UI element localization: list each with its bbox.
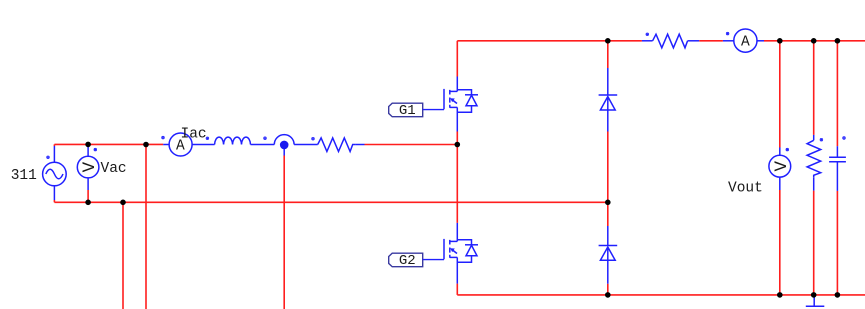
polarity mark V311 — [47, 156, 50, 159]
junction top rail diode-leg — [605, 38, 611, 44]
inductor L1 — [215, 137, 251, 144]
wire inductor to sensor (blue) — [251, 144, 275, 146]
svg-text:311: 311 — [11, 168, 37, 184]
polarity mark Iac — [162, 136, 165, 139]
diode D1 — [599, 68, 618, 132]
svg-text:Vout: Vout — [728, 181, 763, 197]
wire Vout column top red — [779, 41, 781, 148]
polarity mark Vac — [94, 148, 97, 151]
gate tag G1 — [389, 103, 444, 117]
junction drop x=146 — [143, 142, 149, 148]
wire R3 column bottom red — [813, 191, 815, 295]
voltmeter Vac — [77, 146, 99, 190]
polarity mark C1 — [843, 137, 846, 140]
svg-text:Vac: Vac — [101, 161, 127, 177]
wire diode-leg top red — [607, 41, 609, 68]
mosfet Q2 — [444, 223, 478, 284]
junction bottom rail ground — [811, 292, 817, 298]
polarity mark before L1 — [206, 137, 209, 140]
wire branch drop at x=146 (red, from input wire off bottom) — [145, 145, 147, 309]
svg-text:G2: G2 — [399, 253, 416, 269]
current sensor — [274, 135, 317, 156]
wire C1 column bottom red — [836, 191, 838, 295]
wire ac return rail (red, y=202) — [54, 201, 607, 203]
wire C1 column top red — [836, 41, 838, 146]
wire Q1 source to node red — [456, 132, 458, 145]
polarity mark before A2 — [726, 32, 729, 35]
wire sensor drop red (off bottom) — [283, 156, 285, 309]
wire diode-leg D2 cathode red — [607, 202, 609, 226]
gate tag G2 — [389, 253, 444, 267]
resistor R2 — [642, 34, 699, 48]
wire Q2 source to bottom rail red — [456, 284, 458, 295]
wire mosfet-leg midpoint to Q2 drain red (crosses ac return) — [456, 145, 458, 223]
polarity mark before R1 — [312, 137, 315, 140]
junction ac return diode-leg — [605, 200, 611, 206]
wire R3 column top red — [813, 41, 815, 135]
polarity mark Vout — [786, 148, 789, 151]
junction ac return Vac — [85, 200, 91, 206]
wire V311 bottom red corner — [53, 200, 55, 202]
wire top rail left (red, from Q1 drain corner to R2) — [457, 40, 642, 42]
svg-text:Iac: Iac — [181, 127, 207, 143]
ground — [806, 295, 825, 306]
resistor R3 — [807, 135, 821, 191]
svg-text:A: A — [741, 35, 750, 51]
wire top rail right (red, A2 to right edge) — [764, 40, 865, 42]
wire Q1 drain red — [456, 41, 458, 77]
junction top rail C1 — [835, 38, 841, 44]
junction top rail R3 — [811, 38, 817, 44]
wire R1 to mosfet-leg node (red) — [365, 144, 458, 146]
polarity mark R3 — [820, 138, 823, 141]
wire top rail mid (red, R2 to A2) — [699, 40, 723, 42]
wire Vout column bottom red — [779, 190, 781, 295]
junction bottom rail Vout — [777, 292, 783, 298]
svg-text:G1: G1 — [399, 103, 416, 119]
wire Vac bottom red stub — [87, 190, 89, 202]
wire diode-leg mid red (D1 anode to ac return dot) — [607, 132, 609, 203]
junction bottom rail C1 — [835, 292, 841, 298]
wire branch drop at x=123 (red, off bottom) — [122, 202, 124, 309]
diode D2 — [599, 226, 618, 284]
voltmeter Vout — [769, 148, 791, 191]
junction ac return drop x=123 — [120, 200, 126, 206]
junction mosfet-leg node — [455, 142, 461, 148]
wire bottom rail (red) — [457, 294, 865, 296]
ac source V311 — [43, 146, 67, 200]
junction bottom rail diode-leg — [605, 292, 611, 298]
wire input top left (red, source corner to Iac) — [54, 144, 163, 146]
polarity mark after L1 — [264, 137, 267, 140]
resistor R1 — [318, 138, 365, 152]
junction Vac top — [85, 142, 91, 148]
mosfet Q1 — [444, 77, 478, 132]
svg-text:V: V — [772, 160, 792, 171]
capacitor C1 — [829, 146, 846, 191]
junction top rail Vout — [777, 38, 783, 44]
wire diode-leg D2 anode red — [607, 284, 609, 295]
svg-text:V: V — [80, 161, 100, 172]
ammeter Iac — [163, 133, 214, 156]
ammeter A2 — [723, 29, 764, 52]
wire Vac top red stub — [87, 144, 89, 146]
polarity mark R2 left — [646, 33, 649, 36]
